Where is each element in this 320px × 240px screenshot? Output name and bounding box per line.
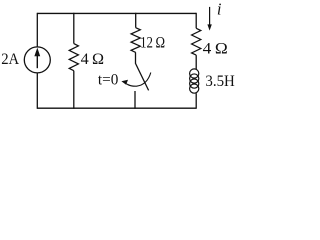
switch S1 motion arc [124,73,151,87]
resistor R1 4ohm zigzag [69,44,78,71]
wire left branch bottom [36,73,38,109]
inductor L1 coil loops [190,69,199,93]
inductor L1 bottom wire [195,93,197,109]
switch S1 top stub [135,52,137,63]
resistor R1 4ohm branch wires [73,13,75,44]
wire left branch top [36,13,38,47]
svg-text:4 Ω: 4 Ω [81,51,105,68]
resistor R2 12ohm zigzag [131,28,140,53]
svg-text:3.5H: 3.5H [205,73,235,90]
switch S1 bottom stub [134,91,136,109]
svg-text:i: i [217,0,222,19]
svg-text:12 Ω: 12 Ω [140,35,165,52]
switch S1 blade [135,63,148,90]
svg-text:2A: 2A [1,51,19,68]
wire between R3 and L1 [195,55,197,69]
current source I1 [24,47,50,73]
switch S1 arc arrowhead [121,80,128,85]
wire top [37,12,196,14]
resistor R3 4ohm branch wire top [195,13,197,28]
current arrow i [209,7,211,26]
wire bottom [37,107,196,109]
resistor R2 12ohm branch wire [135,13,137,28]
svg-text:4 Ω: 4 Ω [203,40,228,57]
svg-text:t=0: t=0 [98,72,118,89]
resistor R3 4ohm zigzag [192,28,201,55]
